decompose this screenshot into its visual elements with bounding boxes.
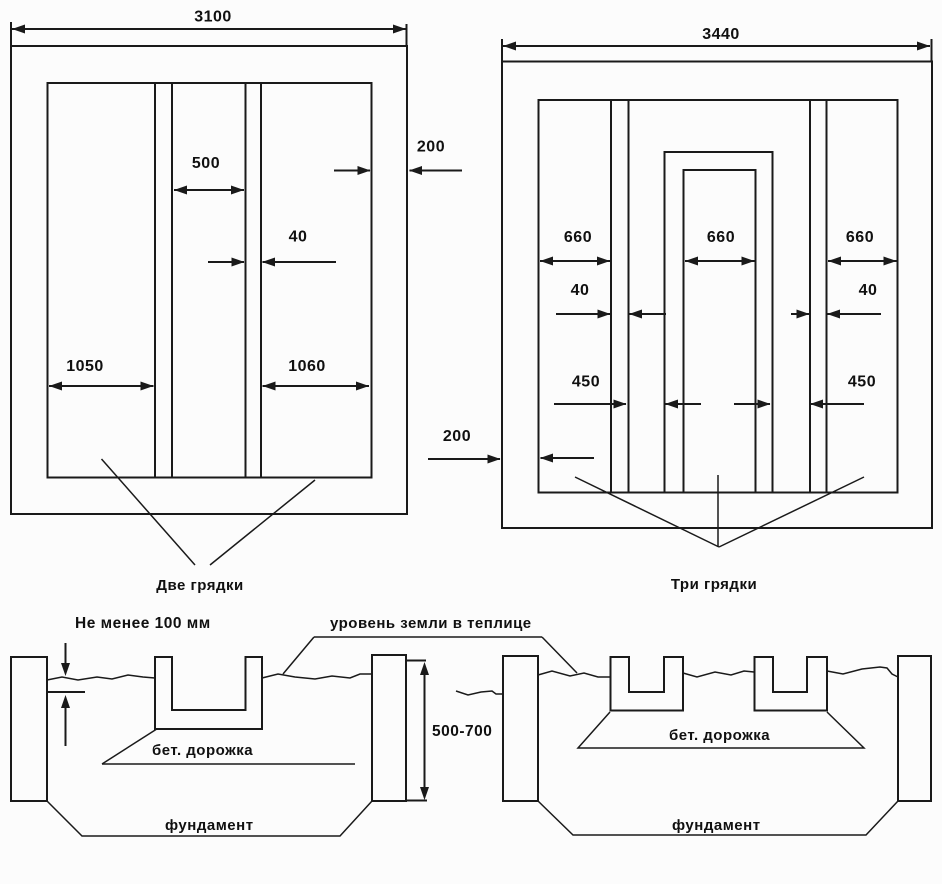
svg-text:450: 450: [572, 374, 600, 391]
dimension 450 left arrows: [554, 400, 701, 409]
label not less than 100 mm: [75, 615, 211, 632]
ground wavy 1 right section: [538, 671, 610, 677]
left plan outer wall: [11, 46, 407, 514]
bed border U-channel left section: [155, 657, 262, 729]
ground label leader right: [542, 637, 577, 673]
leader line left (three beds): [575, 477, 719, 547]
bed border U-channel 2 right section: [755, 657, 828, 711]
dimension 660 left arrows: [540, 257, 610, 266]
label three beds: [671, 576, 757, 593]
svg-text:660: 660: [564, 229, 592, 246]
concrete path trapezoid right section: [578, 712, 864, 748]
ground wavy 3 right section: [827, 667, 898, 677]
leader line right (two beds): [210, 480, 315, 565]
dimension 40 right arrows: [791, 310, 881, 319]
bed border U-channel 1 right section: [611, 657, 684, 711]
leader line center (three beds): [717, 475, 719, 547]
svg-text:бет. дорожка: бет. дорожка: [152, 742, 253, 759]
dimension 200 bottom arrow inner: [540, 454, 594, 463]
label concrete path right section: [669, 727, 770, 744]
bed board line x155: [154, 83, 156, 478]
svg-text:40: 40: [571, 282, 590, 299]
dimension 660 left label: [564, 229, 592, 246]
extension line left: [10, 22, 12, 46]
svg-text:200: 200: [417, 139, 445, 156]
dimension 660 right label: [846, 229, 874, 246]
label 500-700: [432, 723, 492, 740]
dimension 40 right label: [859, 282, 878, 299]
right section right foundation wall: [898, 656, 931, 801]
center U outer frame: [665, 152, 773, 493]
ground label underline: [314, 636, 542, 638]
dimension 660 right arrows: [828, 257, 897, 266]
dimension 660 center label: [707, 229, 735, 246]
extension line right right-plan: [931, 39, 933, 62]
concrete path flag diagonal: [102, 730, 156, 765]
left section right foundation wall: [372, 655, 406, 801]
svg-text:1060: 1060: [288, 358, 326, 375]
svg-text:1050: 1050: [66, 358, 104, 375]
label foundation right section: [672, 817, 761, 834]
center U inner frame: [684, 170, 756, 493]
dimension 500 arrows: [174, 186, 244, 195]
dimension 200 top label: [417, 139, 445, 156]
label two beds: [156, 577, 243, 594]
dimension 1060 arrows: [263, 382, 370, 391]
dimension 40 arrows: [208, 258, 336, 267]
500-700 bottom tick: [407, 800, 427, 802]
dimension 500 label: [192, 155, 220, 172]
500-700 dimension arrow: [420, 662, 429, 800]
dimension 1050 arrows: [49, 382, 154, 391]
svg-text:660: 660: [846, 229, 874, 246]
bed board line x810: [809, 100, 811, 493]
right plan outer wall: [502, 62, 932, 529]
dimension 200 bottom label: [443, 428, 471, 445]
ground wavy 2 right section: [683, 671, 754, 677]
outside ground wavy between sections: [456, 691, 502, 695]
svg-text:660: 660: [707, 229, 735, 246]
svg-text:450: 450: [848, 374, 876, 391]
svg-text:500: 500: [192, 155, 220, 172]
500-700 top tick: [407, 660, 426, 662]
dimension 3440 label: [702, 26, 740, 43]
100mm down arrow: [61, 643, 70, 676]
dimension 1060 label: [288, 358, 326, 375]
dimension 3100 line: [12, 25, 406, 34]
right section foundation outline: [538, 801, 898, 835]
bed board line x826: [826, 100, 828, 493]
ground label leader left: [283, 637, 314, 674]
svg-text:Две грядки: Две грядки: [156, 577, 243, 594]
dimension 40 left label: [571, 282, 590, 299]
bed board line x611: [610, 100, 612, 493]
dimension 3440 line: [503, 42, 930, 51]
svg-text:40: 40: [859, 282, 878, 299]
svg-text:фундамент: фундамент: [165, 817, 254, 834]
label concrete path left section: [152, 742, 253, 759]
svg-text:бет. дорожка: бет. дорожка: [669, 727, 770, 744]
svg-text:3100: 3100: [194, 9, 232, 26]
left plan inner bed frame: [48, 83, 372, 478]
concrete path flag line: [102, 763, 355, 765]
svg-text:Три грядки: Три грядки: [671, 576, 757, 593]
extension line left right-plan: [501, 39, 503, 62]
extension line right: [406, 24, 408, 46]
dimension 450 left label: [572, 374, 600, 391]
dimension 1050 label: [66, 358, 104, 375]
ground wavy left of bed: [47, 675, 155, 680]
right section left foundation wall: [503, 656, 538, 801]
svg-text:200: 200: [443, 428, 471, 445]
100mm reference line: [48, 691, 85, 693]
dimension 200 bottom arrow outer: [428, 455, 501, 464]
dimension 660 center arrows: [685, 257, 755, 266]
label ground level in greenhouse: [330, 615, 532, 632]
svg-text:40: 40: [289, 229, 308, 246]
svg-text:3440: 3440: [702, 26, 740, 43]
bed board line x245: [245, 83, 247, 478]
bed board line x628: [628, 100, 630, 493]
left section foundation outline: [47, 801, 372, 836]
dimension 40 left arrows: [556, 310, 666, 319]
dimension 200 top arrows: [334, 166, 462, 175]
dimension 450 right label: [848, 374, 876, 391]
svg-text:фундамент: фундамент: [672, 817, 761, 834]
dimension 40 label: [289, 229, 308, 246]
dimension 450 right arrows: [734, 400, 864, 409]
dimension 3100 label: [194, 9, 232, 26]
bed board line x172: [171, 83, 173, 478]
bed board line x261: [260, 83, 262, 478]
100mm up arrow: [61, 695, 70, 746]
left section left foundation wall: [11, 657, 47, 801]
svg-text:500-700: 500-700: [432, 723, 492, 740]
svg-text:Не менее 100 мм: Не менее 100 мм: [75, 615, 211, 632]
right plan inner bed frame: [539, 100, 898, 493]
svg-text:уровень земли в теплице: уровень земли в теплице: [330, 615, 532, 632]
leader line right (three beds): [719, 477, 864, 547]
label foundation left section: [165, 817, 254, 834]
leader line left (two beds): [102, 459, 196, 565]
ground wavy right of bed: [262, 674, 372, 679]
